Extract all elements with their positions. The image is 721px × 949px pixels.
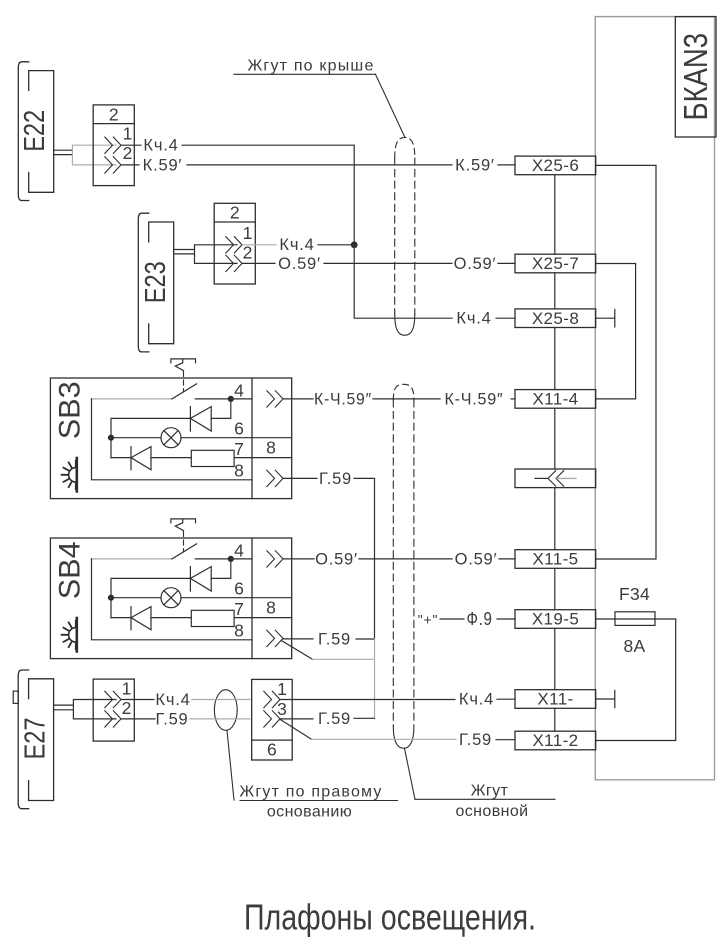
wire Г.59 from SB3 [283,477,317,479]
svg-text:К-Ч.59″: К-Ч.59″ [445,390,504,408]
svg-text:SB4: SB4 [54,541,87,599]
svg-text:1: 1 [123,124,133,144]
SB4 wire diode to node [111,578,190,617]
svg-text:Х11-4: Х11-4 [532,390,578,409]
svg-text:6: 6 [234,579,244,599]
unit BKAN3 label box [675,17,716,137]
wire E27 lamp leads [54,705,74,710]
SB4 diode VD1 [190,567,211,591]
svg-text:6: 6 [234,419,244,439]
svg-text:основной: основной [455,803,528,820]
wire X25-6 to X11-5 [596,165,656,559]
lamp E27 body rectangle [29,679,54,801]
svg-text:8: 8 [234,621,244,641]
wire Kч.4 E27 connector2 to X11- [280,699,455,701]
connector pad Х11-5 [515,550,596,569]
wire Г.59 from E27 pin3 [280,718,313,720]
wire Kч.4 label to connector2 (gray) [192,699,250,701]
svg-text:Х25-7: Х25-7 [532,254,579,273]
svg-text:7: 7 [234,439,244,459]
svg-text:"+": "+" [418,611,439,627]
svg-text:Г.59: Г.59 [459,731,492,749]
connector pad Х11- [515,690,596,709]
svg-text:E23: E23 [140,261,172,303]
svg-text:2: 2 [230,203,240,223]
switch block SB4 outline [50,538,291,659]
svg-text:Кч.4: Кч.4 [143,137,178,155]
svg-text:E22: E22 [19,110,51,152]
SB3 diode VD2 [131,447,151,470]
connector X1 (E27) pin chevrons [105,691,121,727]
svg-text:4: 4 [234,541,244,561]
wire Г.59 diagonal from SB4 chevron [281,640,312,659]
svg-text:К.59′: К.59′ [143,156,183,174]
svg-text:БКАN3: БКАN3 [677,33,714,121]
switch block SB3 outline [50,378,291,499]
SB4 wire resistor row pin 7 [111,617,252,619]
SB3 wire left loop / pin 8 [92,399,253,480]
wire Г.59 diagonal from pin3 to X11-2 run [280,719,312,739]
SB4 output chevrons [267,551,283,647]
svg-text:2: 2 [122,698,132,718]
svg-text:F34: F34 [619,584,650,604]
svg-text:8: 8 [234,461,244,481]
svg-text:Жгут: Жгут [471,783,509,800]
wire O.59 from E23 [243,262,276,264]
SB4 switch contact blade [172,544,197,559]
wire Kч.4 from E23 (gray lead) [243,244,277,246]
svg-text:Жгут по крыше: Жгут по крыше [247,58,374,75]
connector X (E23) pin chevrons [226,237,242,272]
SB4 junction node left [108,595,114,601]
wire Г.59 label to SB4 chevron [283,638,313,640]
leader roof harness [376,74,405,136]
svg-text:Кч.4: Кч.4 [459,691,494,709]
SB4 wire to diode VD1 [211,559,231,579]
svg-text:8А: 8А [623,636,645,656]
SB4 indicator lamp [161,588,181,608]
connector pad Х11-4 [515,390,596,409]
leader main harness [405,748,416,799]
SB3 indicator lamp [161,428,181,448]
connector pad Х11-2 [515,731,596,750]
wire E23 lamp leads [175,250,195,254]
connector pad Х25-7 [515,254,596,273]
wire Г.59 E27 connector1 to label [122,718,156,720]
svg-text:1: 1 [122,679,132,699]
svg-text:О.59′: О.59′ [278,255,321,273]
SB3 wire switch input (gray) [92,398,173,400]
svg-text:основанию: основанию [267,804,352,821]
svg-text:Х11-2: Х11-2 [532,731,578,750]
connector X (E23) [214,203,255,284]
SB3 wire resistor row pin 7 [111,457,252,459]
harness oval right-base (solid capsule) [214,690,237,731]
SB3 resistor [191,450,234,466]
lamp E22 housing bracket [18,62,28,201]
connector X1 (E27) [93,679,134,741]
connector X2 (E27) pin chevrons [264,691,280,727]
wire Kч.4 from E22 [122,144,142,146]
fuse F34 [596,618,615,620]
SB4 wire lamp row pin 6 [111,597,252,599]
wire E22 lamp leads [54,150,73,154]
connector X2 (E27 base) [252,679,293,760]
wire Г.59 gray link to bus [313,639,375,718]
SB4 push-button actuator symbol [171,519,196,531]
SB3 wire contact to pin 4 [195,398,252,400]
svg-text:8: 8 [266,598,276,618]
lamp E27 mount tab [13,691,18,703]
lamp E23 body rectangle [149,222,174,344]
svg-text:Кч.4: Кч.4 [456,310,491,328]
svg-text:Х25-6: Х25-6 [532,156,579,175]
svg-text:О.59′: О.59′ [455,550,498,568]
wire E22 pigtail bracket (gray) [72,145,116,165]
wire stub with terminator at Х25-8 [596,310,615,327]
SB3 wire diode to node [111,418,190,457]
svg-text:О.59′: О.59′ [454,255,497,273]
SB3 push-button actuator symbol [171,359,196,371]
node Kч.4 junction [351,241,358,248]
wire stub with terminator at Х11- [596,690,615,707]
SB4 diode VD2 [131,607,151,630]
SB3 junction node pin4 [228,396,234,402]
leader right-base harness [227,731,234,801]
svg-text:Г.59: Г.59 [318,710,351,728]
wire K.59 from E22 [122,164,140,166]
SB3 output chevrons [267,391,283,487]
connector X (E22) [93,105,134,186]
wire E27 pigtail bracket [73,700,116,719]
svg-text:Ф.9: Ф.9 [467,609,493,629]
svg-text:2: 2 [243,243,253,263]
wire X25-7 to X11-4 [596,264,636,399]
svg-text:Г.59: Г.59 [318,630,351,648]
connector pad Х25-6 [515,156,596,175]
wire fuse to X11-2 [596,619,676,741]
svg-text:8: 8 [266,438,276,458]
svg-text:6: 6 [267,740,277,760]
inline connector symbol on bus [515,469,596,488]
lamp E23 housing bracket [138,213,148,352]
connector pad Х19-5 [515,610,596,629]
SB3 switch contact blade [172,384,197,399]
lamp E27 housing bracket [18,670,28,809]
svg-text:Кч.4: Кч.4 [155,691,190,709]
svg-text:Кч.4: Кч.4 [279,236,314,254]
svg-text:О.59′: О.59′ [315,550,358,568]
SB4 junction node pin4 [228,556,234,562]
svg-text:Г.59: Г.59 [319,470,352,488]
svg-text:1: 1 [243,223,253,243]
wire bus vertical between pads [554,175,556,732]
svg-text:E27: E27 [20,718,52,760]
connector X (E22) pin chevrons [105,137,121,173]
SB3 connector column rows [252,438,292,458]
svg-text:Х11-5: Х11-5 [532,550,578,569]
wire K-Ч.59 from SB3 [283,398,313,400]
svg-text:Жгут по правому: Жгут по правому [239,784,382,801]
svg-text:К.59′: К.59′ [455,156,495,174]
svg-text:4: 4 [234,381,244,401]
SB4 wire contact to pin 4 [195,558,252,560]
SB4 connector column rows [252,598,292,618]
SB4 interior-light icon [76,618,79,651]
svg-text:SB3: SB3 [54,381,87,439]
wire O.59 from SB4 [283,558,314,560]
SB3 interior-light icon [76,458,79,491]
svg-text:Г.59: Г.59 [155,710,188,728]
lamp E22 body rectangle [29,71,54,193]
harness oval roof (dashed capsule) [394,158,396,314]
svg-text:Х25-8: Х25-8 [532,309,579,328]
svg-text:3: 3 [277,699,287,719]
unit BKAN3 outline [595,17,714,780]
SB3 junction node left [108,435,114,441]
svg-text:Плафоны освещения.: Плафоны освещения. [244,897,536,938]
wire Г.59 label to connector2 (gray) [190,718,250,720]
svg-text:1: 1 [277,679,287,699]
svg-text:К-Ч.59″: К-Ч.59″ [314,390,372,408]
svg-text:2: 2 [123,143,133,163]
SB4 resistor [191,610,234,626]
svg-text:Х11-: Х11- [537,690,573,709]
harness oval main (dashed capsule) [392,400,394,726]
svg-text:7: 7 [234,599,244,619]
SB3 diode VD1 [190,407,211,431]
svg-text:2: 2 [109,104,119,124]
svg-text:Х19-5: Х19-5 [532,610,579,629]
SB4 wire switch input (gray) [92,558,173,560]
SB4 wire left loop / pin 8 [92,559,253,640]
connector pad Х25-8 [515,309,596,328]
SB3 wire lamp row pin 6 [111,437,252,439]
SB3 wire to diode VD1 [211,399,231,419]
wire Kч.4 E27 connector1 to label [122,699,155,701]
wire E23 pigtail bracket [195,245,238,264]
